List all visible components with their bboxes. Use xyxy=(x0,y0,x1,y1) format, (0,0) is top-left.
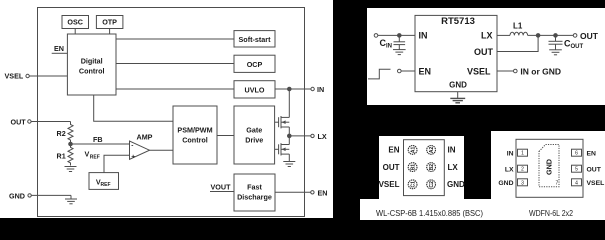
svg-text:-: - xyxy=(131,142,133,149)
svg-text:GND: GND xyxy=(545,159,554,175)
svg-text:2: 2 xyxy=(521,167,524,173)
pin 4 pad xyxy=(572,179,582,187)
wire OTP to Digital Control xyxy=(109,29,111,35)
wire OSC to Digital Control xyxy=(74,29,76,35)
svg-text:A1: A1 xyxy=(410,146,416,153)
pin label IN (A2) xyxy=(448,146,456,155)
svg-text:Discharge: Discharge xyxy=(237,193,272,202)
svg-text:VSEL: VSEL xyxy=(5,72,24,81)
svg-text:Soft-start: Soft-start xyxy=(239,35,272,44)
svg-text:3: 3 xyxy=(521,180,524,186)
svg-text:VSEL: VSEL xyxy=(587,180,605,187)
svg-text:FB: FB xyxy=(93,135,103,144)
svg-text:IN: IN xyxy=(419,31,428,41)
wire GND pin down xyxy=(457,92,459,99)
ground under COUT xyxy=(549,50,562,55)
svg-text:R1: R1 xyxy=(57,152,66,161)
svg-text:OUT: OUT xyxy=(11,118,27,127)
node COUT junction xyxy=(554,34,558,38)
svg-text:OCP: OCP xyxy=(247,60,263,69)
pin label OUT (5) xyxy=(587,166,602,173)
svg-text:R2: R2 xyxy=(57,129,66,138)
svg-text:OUT: OUT xyxy=(587,166,602,173)
EN step waveform xyxy=(368,69,391,79)
pin 5 pad xyxy=(572,165,582,173)
svg-text:AMP: AMP xyxy=(137,133,153,142)
pin label OUT (B1) xyxy=(383,163,400,172)
resistor R1 xyxy=(57,144,74,166)
svg-text:C2: C2 xyxy=(429,181,435,188)
transistor low-side MOSFET xyxy=(275,143,290,155)
pin 6 pad xyxy=(572,149,582,157)
svg-text:UVLO: UVLO xyxy=(245,85,265,94)
package outline WDFN-6L xyxy=(516,139,583,197)
reference block VREF xyxy=(89,173,119,190)
svg-text:OUT: OUT xyxy=(571,44,584,50)
svg-text:V: V xyxy=(85,150,90,159)
digital control block xyxy=(67,34,116,95)
pin label LX (B2) xyxy=(448,163,459,172)
svg-text:GND: GND xyxy=(498,180,513,187)
exposed pad 7 GND xyxy=(539,145,559,187)
svg-text:REF: REF xyxy=(101,182,111,188)
pin VSEL xyxy=(5,72,30,81)
svg-text:IN or GND: IN or GND xyxy=(520,66,561,76)
pin EN bottom right xyxy=(311,188,328,197)
svg-text:1: 1 xyxy=(521,151,524,157)
resistor R2 xyxy=(57,122,74,145)
svg-text:LX: LX xyxy=(318,132,327,141)
pin VIN circle xyxy=(374,34,378,38)
svg-text:L1: L1 xyxy=(513,22,523,31)
package outline WL-CSP-6B xyxy=(404,140,445,196)
wire Digital Control to UVLO xyxy=(116,88,234,90)
wire IN rail to high-side FET drain xyxy=(288,89,290,117)
ball A1 xyxy=(408,146,417,155)
op-amp AMP error amplifier xyxy=(130,133,153,161)
node IN rail junction xyxy=(288,87,292,91)
over-current protection block OCP xyxy=(234,55,275,72)
ball C2 xyxy=(427,180,436,189)
svg-text:VSEL: VSEL xyxy=(379,180,400,189)
svg-text:A2: A2 xyxy=(429,146,435,153)
wire GND to ground symbol xyxy=(31,195,71,199)
wire Digital Control to Soft-start xyxy=(116,38,234,40)
svg-text:OSC: OSC xyxy=(67,18,83,27)
svg-text:Fast: Fast xyxy=(247,183,262,192)
svg-text:Gate: Gate xyxy=(246,126,262,135)
svg-text:B2: B2 xyxy=(429,164,435,171)
capacitor COUT xyxy=(549,35,584,50)
svg-text:WL-CSP-6B 1.415x0.885 (BSC): WL-CSP-6B 1.415x0.885 (BSC) xyxy=(376,208,483,218)
pin 2 pad xyxy=(518,165,528,173)
wire high-side source to LX node xyxy=(288,127,290,145)
wire FB to error amp xyxy=(71,135,130,144)
svg-text:GND: GND xyxy=(449,81,467,90)
pin label IN (1) xyxy=(507,150,514,157)
svg-text:IN: IN xyxy=(507,150,514,157)
pin label VSEL (4) xyxy=(587,180,605,187)
svg-text:6: 6 xyxy=(575,151,578,157)
node CIN junction xyxy=(398,34,402,38)
svg-text:EN: EN xyxy=(419,67,432,77)
svg-text:Control: Control xyxy=(79,67,105,76)
svg-text:IN: IN xyxy=(448,146,456,155)
wire UVLO to IN pin xyxy=(275,88,311,90)
pin label EN (6) xyxy=(587,150,597,157)
wire LX pin to inductor xyxy=(497,34,510,36)
pin VSEL select circle xyxy=(514,66,562,76)
outer boundary box xyxy=(38,8,305,217)
wire amp output to PSM/PWM control xyxy=(150,149,174,151)
fast discharge block xyxy=(234,174,275,211)
wire VIN to IN pin xyxy=(378,34,415,36)
inductor L1 xyxy=(510,22,528,36)
label VOUT stub into fast discharge xyxy=(210,183,234,192)
wire LX node to LX pin xyxy=(289,135,311,137)
pin label IN xyxy=(419,31,428,41)
wire PSM/PWM to gate drive xyxy=(217,135,234,137)
pin label VSEL (C1) xyxy=(379,180,400,189)
wire inductor to output node xyxy=(528,34,574,36)
wire VREF box to amp + input xyxy=(104,155,130,172)
ground under CIN xyxy=(393,50,406,55)
svg-text:EN: EN xyxy=(54,44,64,53)
wire fast discharge to EN pin xyxy=(275,191,311,193)
svg-text:OUT: OUT xyxy=(580,31,599,41)
PSM/PWM control block xyxy=(173,106,217,164)
pin OUT xyxy=(11,118,32,127)
ground under low-side MOSFET xyxy=(283,162,295,167)
node EN stub into Digital Control xyxy=(52,44,68,53)
svg-text:B1: B1 xyxy=(410,164,416,171)
pin EN circle xyxy=(398,69,402,73)
svg-text:5: 5 xyxy=(575,167,578,173)
ground under GND pin xyxy=(450,98,465,102)
node FB junction xyxy=(69,142,73,146)
svg-text:OUT: OUT xyxy=(383,163,400,172)
ground on GND line xyxy=(65,199,77,204)
wire Digital Control to OCP xyxy=(116,63,234,65)
svg-text:4: 4 xyxy=(575,180,578,186)
ball B1 xyxy=(408,163,417,172)
ground under R1 xyxy=(65,167,77,172)
pin label VSEL xyxy=(467,67,491,77)
ball B2 xyxy=(427,163,436,172)
pin GND xyxy=(9,191,31,200)
svg-text:PSM/PWM: PSM/PWM xyxy=(177,126,212,135)
svg-text:LX: LX xyxy=(481,31,493,41)
svg-text:C1: C1 xyxy=(410,181,416,188)
pin label GND xyxy=(449,81,467,90)
thermal protection block OTP xyxy=(96,16,123,29)
wire VSEL to Digital Control xyxy=(29,75,67,77)
caption WL-CSP-6B xyxy=(376,208,483,218)
svg-text:Digital: Digital xyxy=(81,57,103,66)
svg-text:+: + xyxy=(131,153,135,160)
svg-text:LX: LX xyxy=(448,163,459,172)
pin label GND (3) xyxy=(498,180,513,187)
caption WDFN-6L xyxy=(529,208,573,218)
ball A2 xyxy=(427,146,436,155)
svg-text:LX: LX xyxy=(505,166,514,173)
soft-start block xyxy=(234,31,275,47)
svg-text:VOUT: VOUT xyxy=(211,183,232,192)
oscillator block OSC xyxy=(62,16,89,29)
svg-text:EN: EN xyxy=(388,146,399,155)
svg-text:7: 7 xyxy=(556,181,559,187)
svg-text:IN: IN xyxy=(386,44,392,50)
pin label LX xyxy=(481,31,493,41)
pin label GND (C2) xyxy=(447,180,465,189)
pin label OUT xyxy=(474,47,494,57)
IC U1 RT5713 xyxy=(415,15,497,91)
pin 3 pad xyxy=(518,179,528,187)
wire VSEL pin to select circle xyxy=(497,70,514,72)
capacitor CIN xyxy=(380,35,406,49)
wire OUT to feedback divider xyxy=(31,121,70,123)
svg-text:OUT: OUT xyxy=(474,47,494,57)
wire Digital Control to PSM/PWM control xyxy=(94,95,173,121)
node L1 output junction xyxy=(536,34,540,38)
pin label EN xyxy=(419,67,432,77)
svg-text:EN: EN xyxy=(587,150,597,157)
svg-text:EN: EN xyxy=(318,188,328,197)
node LX junction xyxy=(288,134,292,138)
svg-text:Drive: Drive xyxy=(245,136,263,145)
svg-text:REF: REF xyxy=(90,155,100,161)
svg-text:GND: GND xyxy=(9,191,25,200)
pin 1 pad xyxy=(518,149,528,157)
svg-text:GND: GND xyxy=(447,180,465,189)
ball C1 xyxy=(408,180,417,189)
pin label LX (2) xyxy=(505,166,514,173)
wire low-side source to ground xyxy=(288,154,290,161)
svg-text:VSEL: VSEL xyxy=(467,67,491,77)
pin LX xyxy=(311,132,327,141)
svg-text:Control: Control xyxy=(182,136,208,145)
under-voltage lockout block UVLO xyxy=(234,81,275,98)
svg-text:IN: IN xyxy=(317,85,324,94)
label VREF on + input xyxy=(85,150,100,161)
pin IN xyxy=(311,85,324,94)
transistor high-side MOSFET xyxy=(275,116,290,128)
svg-text:WDFN-6L 2x2: WDFN-6L 2x2 xyxy=(529,208,573,218)
wire OUT pin feedback to output node xyxy=(497,35,538,51)
pin label EN (A1) xyxy=(388,146,399,155)
pin OUT circle xyxy=(573,31,598,41)
wire EN circle to EN pin xyxy=(401,70,415,72)
gate drive block xyxy=(234,106,275,164)
svg-text:RT5713: RT5713 xyxy=(441,16,475,27)
svg-text:OTP: OTP xyxy=(102,18,117,27)
